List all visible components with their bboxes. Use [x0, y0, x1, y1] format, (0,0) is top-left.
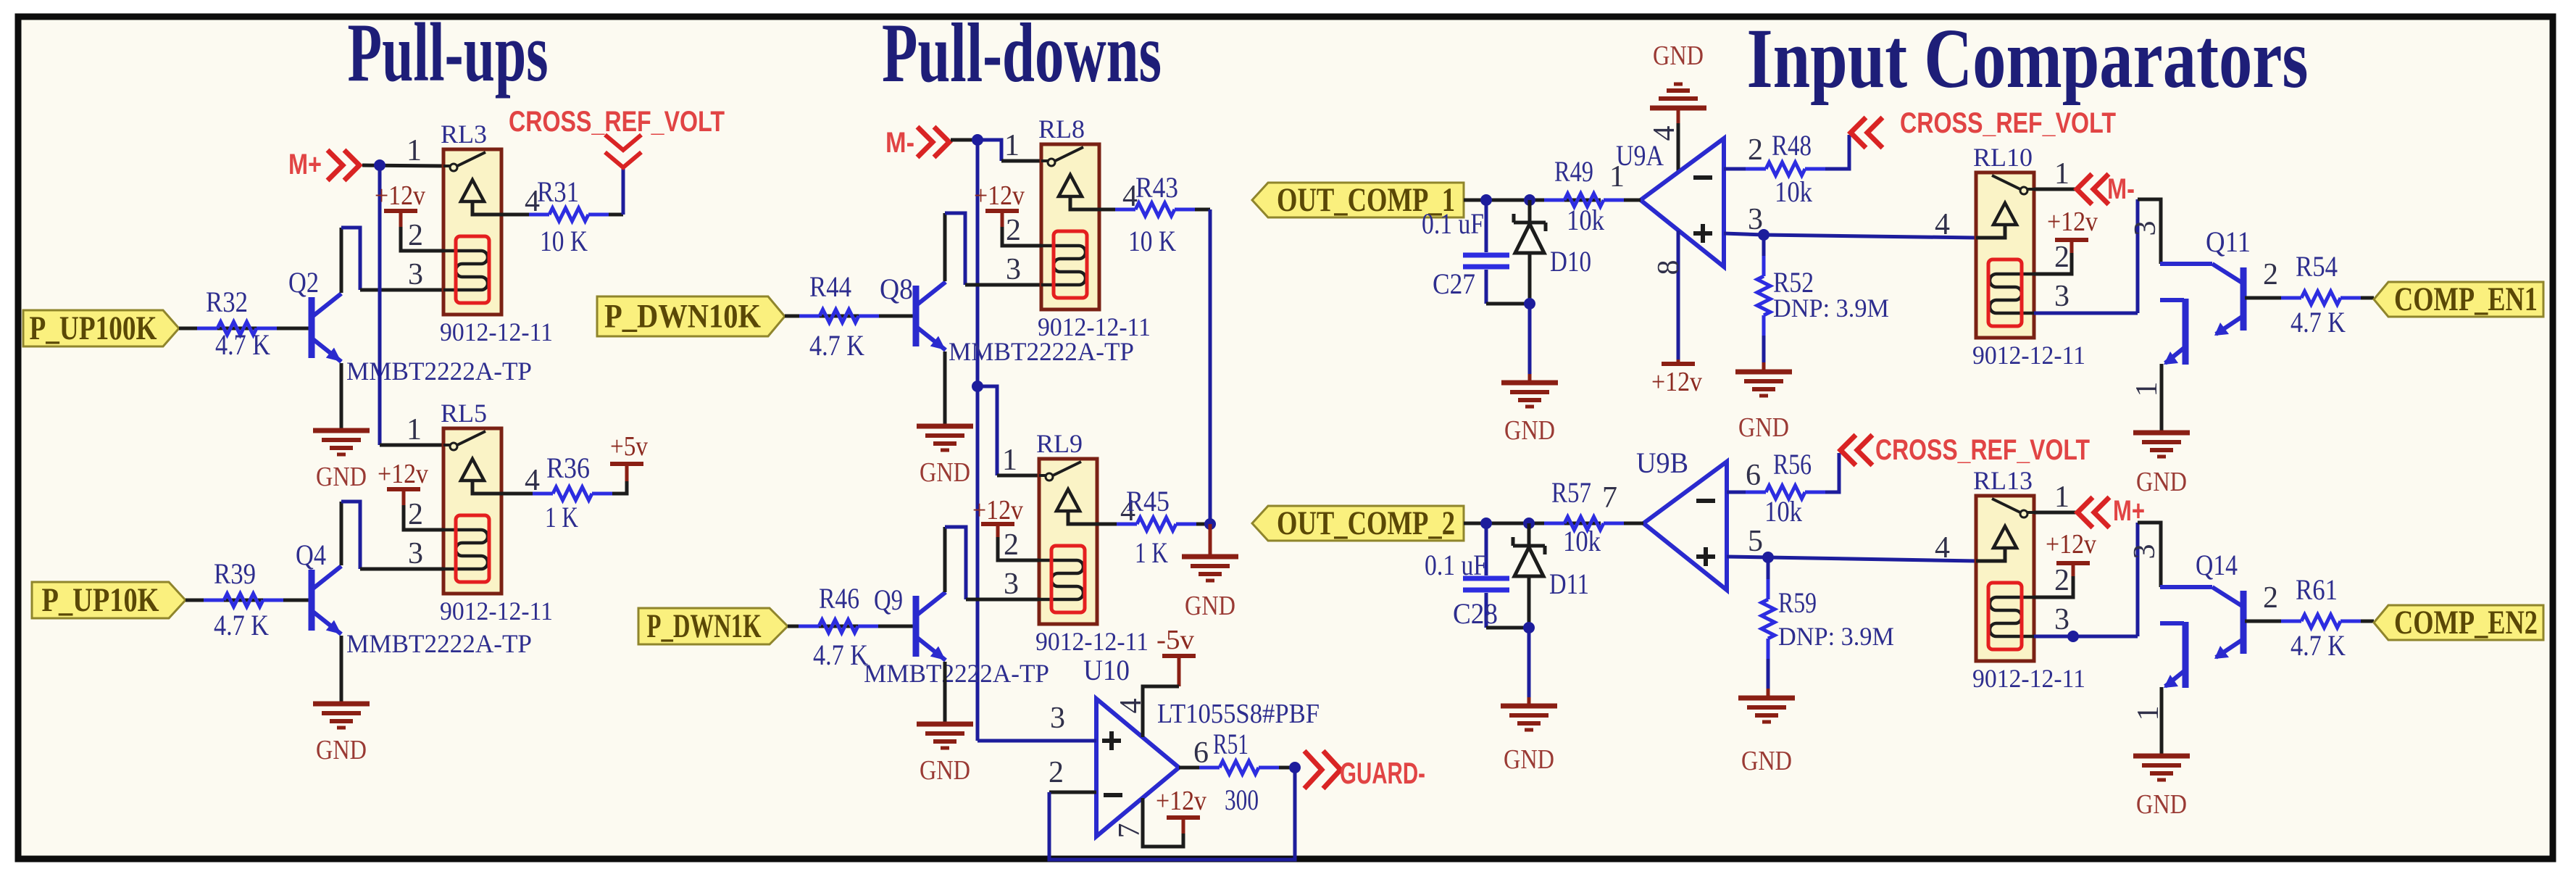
svg-text:1: 1 — [2132, 706, 2165, 721]
port P_DWN1K — [638, 608, 788, 644]
wire Q11 emitter to ground — [2160, 364, 2164, 433]
svg-text:7: 7 — [1602, 481, 1617, 515]
svg-text:9012-12-11: 9012-12-11 — [1035, 627, 1149, 656]
relay RL5 — [443, 428, 501, 594]
wire OUT_COMP_2 to R57 — [1464, 522, 1601, 525]
resistor R56 — [1746, 491, 1766, 494]
wire +12v to RL3 pin2 — [401, 227, 443, 251]
wire R54 to COMP_EN1 — [2361, 296, 2374, 300]
svg-text:4.7 K: 4.7 K — [2291, 629, 2346, 662]
svg-text:RL9: RL9 — [1036, 429, 1083, 458]
wire R36 to +5v — [612, 481, 627, 494]
svg-text:R51: R51 — [1213, 728, 1249, 760]
svg-text:4.7 K: 4.7 K — [813, 639, 868, 671]
svg-text:2: 2 — [2054, 241, 2069, 274]
svg-text:P_UP10K: P_UP10K — [42, 581, 159, 619]
wire Q9 collector — [943, 527, 947, 592]
svg-text:M-: M- — [885, 127, 914, 159]
power +12v U9A — [1662, 362, 1695, 366]
svg-text:GND: GND — [1653, 41, 1704, 71]
svg-text:1: 1 — [2054, 157, 2069, 191]
wire branch to RL9 pin1 — [978, 386, 997, 475]
svg-text:6: 6 — [1746, 459, 1761, 492]
power +12v RL5 — [387, 487, 420, 491]
op-amp U9A — [1641, 138, 1724, 267]
power +12v U10 — [1167, 815, 1200, 820]
resistor R31 — [529, 213, 549, 217]
svg-text:7: 7 — [1113, 823, 1146, 839]
wire Q4 collector — [340, 502, 343, 565]
wire R59 to ground — [1767, 659, 1770, 689]
svg-text:GND: GND — [1738, 412, 1789, 443]
svg-text:1 K: 1 K — [545, 501, 578, 533]
ground R52 — [1735, 370, 1792, 375]
svg-text:R48: R48 — [1772, 129, 1812, 162]
svg-text:LT1055S8#PBF: LT1055S8#PBF — [1157, 699, 1320, 729]
svg-text:10k: 10k — [1764, 495, 1802, 528]
wire R52 to ground — [1762, 336, 1766, 362]
svg-text:R56: R56 — [1773, 448, 1812, 481]
svg-text:9012-12-11: 9012-12-11 — [1972, 664, 2085, 693]
svg-text:M-: M- — [2107, 173, 2135, 205]
wire RL9 pin3 — [966, 598, 1039, 602]
junction D10 bottom — [1524, 298, 1535, 309]
wire C27 bottom — [1486, 302, 1530, 306]
harness M+ RL13 — [2077, 497, 2093, 528]
svg-text:+12v: +12v — [974, 180, 1025, 211]
svg-text:4.7 K: 4.7 K — [215, 328, 270, 361]
resistor R52 — [1762, 235, 1766, 256]
svg-text:CROSS_REF_VOLT: CROSS_REF_VOLT — [1900, 107, 2116, 139]
ground Q2 — [313, 428, 370, 433]
wire RL5 pin3 — [360, 568, 443, 571]
svg-text:1: 1 — [407, 413, 422, 446]
port OUT_COMP_2 — [1252, 506, 1464, 541]
svg-text:P_DWN1K: P_DWN1K — [647, 607, 762, 645]
svg-text:CROSS_REF_VOLT: CROSS_REF_VOLT — [509, 106, 725, 138]
wire RL10 pin1 to M- — [2034, 188, 2077, 191]
capacitor C27 — [1485, 200, 1488, 252]
harness M- RL10 — [2077, 174, 2092, 204]
svg-text:R32: R32 — [206, 286, 248, 318]
resistor R44 — [799, 315, 820, 318]
wire Q9 emitter to ground — [943, 662, 947, 724]
svg-text:COMP_EN2: COMP_EN2 — [2394, 604, 2538, 641]
svg-text:U10: U10 — [1083, 654, 1130, 686]
svg-text:10 K: 10 K — [540, 225, 588, 257]
wire Q14 emitter to ground — [2160, 687, 2164, 756]
wire U9A pin3 — [1724, 233, 1764, 235]
svg-text:9012-12-11: 9012-12-11 — [440, 317, 553, 346]
op-amp U10 — [1096, 699, 1179, 836]
junction M+ node — [374, 159, 385, 171]
svg-text:1: 1 — [407, 134, 422, 167]
wire RL5 pin1 — [380, 444, 443, 447]
svg-text:RL3: RL3 — [441, 120, 487, 149]
svg-text:MMBT2222A-TP: MMBT2222A-TP — [346, 357, 532, 386]
svg-text:1: 1 — [1004, 129, 1020, 162]
wire P_DWN10K to R44 — [785, 315, 916, 318]
svg-text:-5v: -5v — [1156, 625, 1194, 655]
svg-text:2: 2 — [408, 219, 423, 252]
transistor Q2 — [309, 297, 315, 358]
wire Q8 emitter to ground — [943, 352, 947, 426]
ground Q4 — [313, 702, 370, 707]
svg-text:RL8: RL8 — [1038, 115, 1085, 144]
svg-text:COMP_EN1: COMP_EN1 — [2394, 280, 2538, 318]
wire RL10 pin3 to Q11 — [2034, 312, 2138, 315]
junction D11 bottom — [1523, 622, 1535, 633]
svg-text:Q11: Q11 — [2206, 225, 2251, 258]
svg-text:0.1 uF: 0.1 uF — [1422, 207, 1484, 240]
ground Q9 — [917, 722, 973, 727]
svg-text:Pull-ups: Pull-ups — [348, 7, 549, 99]
svg-text:3: 3 — [408, 537, 423, 570]
wire U10 pin4 — [1143, 686, 1179, 737]
svg-text:2: 2 — [2263, 258, 2278, 291]
wire P_UP10K to R39 — [186, 599, 312, 602]
wire U9B pin5 — [1727, 557, 1768, 557]
ground R59 — [1738, 696, 1795, 701]
junction C27 node — [1480, 194, 1492, 206]
junction C28 node — [1480, 518, 1492, 529]
wire R43 to vertical — [1195, 208, 1210, 212]
svg-text:R49: R49 — [1554, 155, 1593, 188]
wire R31 to CROSS_REF_VOLT — [609, 213, 623, 217]
port P_DWN10K — [597, 296, 785, 336]
resistor R54 — [2281, 296, 2301, 300]
wire P_UP100K to R32 — [179, 327, 312, 331]
resistor R49 — [1544, 199, 1564, 202]
svg-text:GND: GND — [920, 457, 970, 488]
wire RL8 pin4 to R43 — [1099, 208, 1115, 212]
junction D10 node — [1524, 194, 1535, 206]
svg-text:+12v: +12v — [2046, 529, 2096, 560]
wire RL13 pin3 to Q14 — [2034, 635, 2138, 639]
transistor Q11 — [2160, 262, 2212, 266]
wire M+ to RL3 pin1 — [362, 165, 443, 166]
svg-text:GND: GND — [316, 462, 367, 492]
svg-text:GND: GND — [316, 735, 367, 765]
svg-text:C27: C27 — [1433, 267, 1475, 300]
svg-text:D11: D11 — [1549, 568, 1589, 600]
svg-text:300: 300 — [1225, 784, 1259, 816]
svg-text:R45: R45 — [1126, 485, 1170, 518]
svg-text:10 K: 10 K — [1128, 225, 1176, 257]
svg-text:4: 4 — [1935, 531, 1950, 565]
svg-text:3: 3 — [2054, 603, 2069, 636]
svg-text:R46: R46 — [819, 582, 859, 615]
wire pin5 to RL13 pin4 — [1768, 557, 1976, 561]
wire OUT_COMP_1 to R49 — [1464, 199, 1601, 202]
power +12v RL13 — [2056, 561, 2090, 565]
svg-text:1: 1 — [2130, 382, 2164, 397]
wire +12v to RL8 pin2 — [1002, 227, 1041, 246]
harness CROSS_REF_VOLT row2 — [1841, 435, 1856, 465]
svg-text:4: 4 — [1935, 208, 1950, 241]
svg-text:2: 2 — [2263, 581, 2278, 615]
wire R51 to GUARD- — [1279, 766, 1295, 770]
svg-text:1: 1 — [1002, 444, 1017, 477]
svg-text:2: 2 — [1004, 528, 1019, 562]
svg-text:GND: GND — [2136, 467, 2187, 497]
svg-text:R61: R61 — [2296, 573, 2338, 606]
wire Q8 collector — [943, 213, 947, 281]
svg-text:6: 6 — [1193, 736, 1209, 770]
svg-text:4.7 K: 4.7 K — [2291, 306, 2346, 338]
resistor R36 — [533, 492, 553, 496]
power +12v RL10 — [2055, 238, 2088, 242]
wire +12v to RL13 pin2 — [2034, 576, 2073, 597]
junction R45 node — [1204, 518, 1216, 530]
wire R56 to CROSS_REF_VOLT — [1825, 453, 1839, 492]
wire R45 to junction — [1196, 523, 1210, 526]
capacitor C28 — [1485, 523, 1488, 575]
svg-text:C28: C28 — [1453, 597, 1498, 630]
port COMP_EN2 — [2374, 605, 2543, 640]
wire Q4 emitter to ground — [340, 636, 343, 704]
svg-text:GUARD-: GUARD- — [1340, 756, 1425, 790]
wire R57 to U9B pin7 — [1624, 522, 1643, 525]
svg-text:M+: M+ — [288, 149, 322, 180]
svg-text:10k: 10k — [1567, 204, 1604, 236]
svg-text:8: 8 — [1652, 260, 1685, 275]
svg-text:R36: R36 — [546, 452, 590, 484]
resistor R32 — [197, 327, 217, 331]
svg-text:1: 1 — [2054, 481, 2069, 514]
svg-text:R31: R31 — [537, 175, 579, 208]
wire D11 to ground — [1527, 628, 1531, 697]
svg-text:D10: D10 — [1550, 245, 1591, 278]
wire RL13 pin1 to M+ — [2034, 511, 2077, 515]
svg-text:GND: GND — [920, 755, 970, 786]
ground R45 node — [1182, 554, 1238, 560]
svg-text:2: 2 — [1049, 756, 1064, 789]
wire M- to node — [951, 138, 978, 142]
svg-text:GND: GND — [1741, 746, 1792, 776]
svg-text:3: 3 — [2129, 221, 2162, 236]
svg-text:9012-12-11: 9012-12-11 — [440, 597, 553, 625]
svg-text:4.7 K: 4.7 K — [214, 609, 269, 641]
svg-text:MMBT2222A-TP: MMBT2222A-TP — [949, 337, 1134, 366]
wire junction to ground — [1209, 524, 1212, 557]
svg-text:3: 3 — [408, 258, 423, 291]
resistor R43 — [1115, 208, 1135, 212]
wire U9A pin2 — [1724, 167, 1746, 171]
wire RL5 pin4 to R36 — [501, 492, 536, 496]
wire Q2 collector — [340, 228, 343, 293]
relay RL9 — [1039, 459, 1097, 624]
wire U10 feedback — [1049, 768, 1295, 860]
svg-text:OUT_COMP_2: OUT_COMP_2 — [1277, 504, 1455, 542]
wire +12v to RL5 pin2 — [404, 505, 443, 530]
wire R49 to U9A pin1 — [1624, 199, 1641, 202]
harness GUARD- — [1304, 751, 1322, 789]
svg-text:U9B: U9B — [1636, 446, 1688, 479]
svg-text:RL13: RL13 — [1973, 466, 2033, 495]
ground Q11 — [2133, 431, 2190, 436]
wire RL3 pin3 — [360, 288, 443, 292]
wire U10 pin2 stub — [1049, 791, 1096, 794]
wire U10 pin7 — [1143, 798, 1183, 847]
op-amp U9B — [1643, 462, 1727, 590]
power -5v U10 — [1162, 654, 1196, 658]
svg-text:Q2: Q2 — [288, 266, 319, 299]
svg-text:2: 2 — [1748, 133, 1763, 167]
wire U9A pin8 — [1677, 230, 1680, 359]
svg-text:P_DWN10K: P_DWN10K — [604, 298, 761, 336]
svg-text:MMBT2222A-TP: MMBT2222A-TP — [346, 629, 532, 658]
svg-text:9012-12-11: 9012-12-11 — [1038, 312, 1151, 341]
svg-text:Q9: Q9 — [874, 583, 903, 616]
svg-text:+12v: +12v — [2047, 207, 2098, 237]
svg-text:+12v: +12v — [378, 459, 428, 489]
svg-text:MMBT2222A-TP: MMBT2222A-TP — [864, 659, 1049, 688]
svg-text:9012-12-11: 9012-12-11 — [1972, 341, 2085, 370]
svg-text:R59: R59 — [1778, 586, 1817, 619]
resistor R57 — [1544, 522, 1564, 525]
relay RL3 — [443, 149, 501, 315]
svg-text:Q4: Q4 — [296, 539, 326, 571]
relay RL10 — [1976, 173, 2034, 338]
diode D11 — [1527, 523, 1531, 546]
svg-text:GND: GND — [1185, 591, 1235, 621]
svg-text:10k: 10k — [1775, 175, 1812, 208]
svg-text:RL5: RL5 — [441, 399, 487, 428]
relay RL13 — [1976, 496, 2034, 661]
svg-text:Q8: Q8 — [880, 273, 913, 305]
junction R59 node — [1762, 552, 1774, 563]
svg-text:2: 2 — [2054, 564, 2069, 597]
transistor Q14 — [2160, 585, 2212, 589]
junction R52 node — [1758, 229, 1770, 241]
wire +12v to RL9 pin2 — [998, 537, 1039, 560]
svg-text:R43: R43 — [1135, 171, 1178, 204]
wire RL9 pin4 to R45 — [1097, 523, 1117, 526]
wire R43 R45 vertical — [1209, 209, 1212, 524]
resistor R48 — [1746, 167, 1766, 171]
wire RL3 pin4 to R31 — [501, 213, 536, 217]
harness CROSS_REF_VOLT row1 — [1851, 117, 1866, 148]
wire M- step to RL8 pin1 — [978, 140, 1001, 161]
svg-text:GND: GND — [1504, 415, 1555, 446]
svg-text:+12v: +12v — [375, 180, 425, 211]
svg-text:Input Comparators: Input Comparators — [1747, 11, 2309, 106]
ground Q14 — [2133, 754, 2190, 759]
resistor R61 — [2281, 620, 2301, 623]
wire M+ vertical — [378, 165, 382, 445]
svg-text:R57: R57 — [1551, 476, 1591, 509]
power +12v RL3 — [384, 209, 417, 213]
wire +12v to RL10 pin2 — [2034, 253, 2072, 274]
svg-text:5: 5 — [1748, 525, 1763, 558]
svg-text:1 K: 1 K — [1135, 536, 1168, 569]
svg-text:GND: GND — [1504, 744, 1554, 775]
wire U10 pin3 — [978, 739, 1096, 743]
svg-text:3: 3 — [2054, 280, 2069, 313]
resistor R59 — [1767, 557, 1770, 579]
svg-text:Pull-downs: Pull-downs — [882, 7, 1162, 100]
svg-text:DNP: 3.9M: DNP: 3.9M — [1778, 622, 1894, 651]
port OUT_COMP_1 — [1252, 183, 1464, 217]
svg-text:3: 3 — [1006, 253, 1021, 286]
svg-text:R39: R39 — [214, 557, 256, 590]
svg-text:R54: R54 — [2296, 250, 2338, 283]
svg-text:3: 3 — [1004, 568, 1019, 601]
junction M- node — [972, 134, 983, 146]
svg-text:GND: GND — [2136, 789, 2187, 820]
wire D10 to ground — [1528, 304, 1532, 374]
ground D10 — [1501, 381, 1558, 386]
wire M- vertical — [976, 140, 980, 741]
wire P_DWN1K to R46 — [788, 625, 916, 628]
svg-text:R44: R44 — [809, 270, 851, 303]
port COMP_EN1 — [2374, 282, 2543, 317]
wire R61 to COMP_EN2 — [2361, 620, 2374, 623]
junction RL9 branch — [972, 381, 983, 392]
transistor Q9 — [913, 596, 920, 657]
relay RL8 — [1041, 144, 1099, 309]
svg-text:2: 2 — [1006, 214, 1021, 247]
wire U9A pin4 — [1677, 123, 1680, 172]
resistor R51 — [1199, 766, 1220, 770]
power +12v RL8 — [985, 209, 1019, 213]
port P_UP100K — [23, 310, 179, 346]
wire R48 to CROSS_REF_VOLT — [1825, 135, 1849, 169]
transistor Q8 — [913, 286, 920, 346]
ground Q8 — [917, 424, 973, 429]
svg-text:+12v: +12v — [972, 495, 1023, 525]
transistor Q4 — [309, 570, 315, 631]
port P_UP10K — [32, 582, 186, 618]
wire U10 output — [1179, 766, 1199, 770]
svg-text:3: 3 — [1050, 702, 1065, 735]
wire RL8 pin3 — [965, 283, 1041, 287]
svg-text:4: 4 — [1114, 699, 1148, 714]
ground above U9A — [1650, 106, 1706, 111]
svg-text:2: 2 — [408, 498, 423, 531]
svg-text:DNP: 3.9M: DNP: 3.9M — [1773, 294, 1889, 323]
svg-text:P_UP100K: P_UP100K — [30, 309, 157, 347]
resistor R46 — [799, 625, 819, 628]
svg-text:+12v: +12v — [1651, 367, 1702, 397]
wire Q14 pin2 to R61 — [2245, 620, 2281, 623]
junction D11 node — [1523, 518, 1535, 529]
power +12v RL9 — [981, 522, 1014, 526]
svg-text:RL10: RL10 — [1973, 143, 2033, 172]
junction RL13 pin3 node — [2067, 631, 2079, 642]
svg-text:+12v: +12v — [1156, 786, 1206, 816]
svg-text:+5v: +5v — [610, 431, 648, 462]
svg-text:Q14: Q14 — [2196, 549, 2238, 581]
power +5v — [610, 462, 643, 466]
resistor R45 — [1117, 523, 1137, 526]
resistor R39 — [204, 599, 224, 602]
wire U9B pin6 — [1727, 491, 1746, 494]
ground D11 — [1501, 704, 1557, 709]
svg-text:4.7 K: 4.7 K — [809, 329, 864, 362]
wire pin3 to RL10 pin4 — [1764, 235, 1976, 238]
diode D10 — [1528, 200, 1532, 223]
svg-text:0.1 uF: 0.1 uF — [1425, 549, 1487, 581]
svg-text:CROSS_REF_VOLT: CROSS_REF_VOLT — [1875, 434, 2090, 466]
wire Q11 pin2 to R54 — [2245, 296, 2281, 300]
svg-text:3: 3 — [2128, 544, 2162, 560]
wire Q2 emitter to ground — [340, 363, 343, 431]
svg-text:10k: 10k — [1563, 525, 1601, 557]
wire C28 bottom — [1486, 626, 1529, 630]
junction GUARD node — [1289, 762, 1301, 773]
